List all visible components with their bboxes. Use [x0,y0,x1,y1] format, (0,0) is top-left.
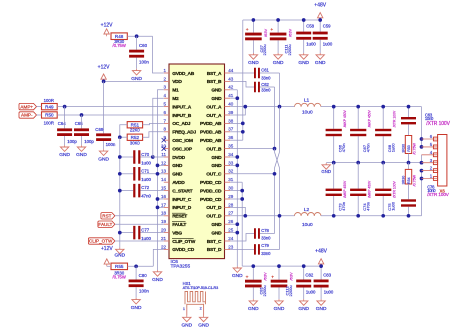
svg-text:1u00: 1u00 [324,290,334,295]
svg-text:/0.75W: /0.75W [412,174,416,186]
svg-text:100p: 100p [84,139,94,144]
svg-text:19: 19 [161,219,167,224]
svg-text:OUT_D: OUT_D [206,205,222,211]
pin 31 PVDD_CD [200,177,234,186]
svg-text:10u0: 10u0 [302,110,313,116]
ground below C80 [131,298,142,311]
svg-text:PVDD_AB: PVDD_AB [200,138,222,144]
capacitor C71 [120,167,158,182]
svg-text:GND: GND [316,306,327,312]
wire output mid rail GND [326,162,421,164]
svg-text:L1: L1 [304,98,310,104]
svg-text:INPUT_D: INPUT_D [172,205,192,211]
ground below C59 [315,53,326,66]
wire rail CD to X6 pins 2/1 [420,169,424,216]
svg-text:GND: GND [152,277,163,283]
junction C64 tap [63,105,67,109]
ground above R55 [0,0,1,1]
svg-text:32: 32 [228,169,234,174]
svg-text:GND: GND [248,306,259,312]
svg-text:100R: 100R [44,98,54,103]
wire CLIP_OTW to pin 21 [115,240,164,242]
junction OUT_D vertical [278,214,282,218]
svg-text:R51: R51 [131,122,140,127]
svg-text:/MKP 450V: /MKP 450V [367,109,371,127]
pin 15 C_START [161,186,193,195]
svg-text:R53: R53 [407,145,411,152]
pin 2 VDD [163,76,182,85]
svg-text:C64: C64 [58,121,66,126]
svg-text:/MKP 450V: /MKP 450V [343,180,347,198]
power flag +12V (bottom) [101,246,113,266]
svg-text:/63V: /63V [288,272,293,281]
op-amp IC6 TPA3255 body [169,64,225,269]
svg-text:C82: C82 [305,273,313,278]
svg-text:VDD: VDD [172,79,182,85]
svg-text:C58: C58 [306,24,314,29]
svg-text:100p: 100p [67,139,77,144]
capacitor C83 [314,264,334,299]
junction C70 left [118,155,122,159]
wire RST to pin 18 RESET [115,215,164,217]
svg-text:BST_D: BST_D [207,247,222,253]
svg-text:36: 36 [228,135,234,140]
pin 39 OUT_A [206,110,234,119]
svg-text:GVDD_AB: GVDD_AB [172,71,195,77]
svg-text:29: 29 [228,194,234,199]
junction R52/GND rail [118,135,122,139]
svg-text:GND: GND [59,152,70,158]
svg-text:INPUT_A: INPUT_A [172,104,192,110]
flag FAULT [98,221,115,227]
pin 40 OUT_A [206,102,234,111]
heatsink HS1 [183,281,219,315]
svg-text:R49: R49 [45,104,54,109]
svg-text:INPUT_C: INPUT_C [172,197,192,203]
svg-text:22K0: 22K0 [130,128,140,133]
wire R52 to GND rail [120,136,127,138]
ground below C112 [274,299,285,312]
pin 16 INPUT_C [161,194,192,203]
resistor R50 [42,112,58,126]
svg-text:GND: GND [131,305,142,311]
input flag AMP+ [19,103,37,109]
svg-text:/MKP 450V: /MKP 450V [367,180,371,198]
wire C70 to pin 11 DVDD [153,156,164,158]
svg-text:C61: C61 [261,67,269,72]
svg-text:470n: 470n [365,202,370,211]
svg-text:+48V: +48V [314,3,326,9]
capacitor C80 [129,266,150,298]
svg-text:GND: GND [211,88,222,94]
svg-text:30: 30 [228,186,234,191]
svg-text:C80: C80 [139,273,148,278]
svg-text:CLIP_OTW: CLIP_OTW [172,239,196,245]
flag RST [101,213,115,219]
svg-text:+: + [246,28,249,33]
capacitor C79 [230,243,279,256]
svg-text:470n: 470n [341,143,346,152]
svg-text:14: 14 [161,177,167,182]
svg-text:BST_B: BST_B [207,79,222,85]
ground below C81 [248,299,259,312]
svg-text:35: 35 [228,144,234,149]
svg-text:13: 13 [161,169,167,174]
resistor R48 [111,33,127,48]
pin 4 M2 [163,93,178,102]
capacitor C72 [120,184,164,199]
pin 41 GND [211,93,233,102]
pin 20 VBG [161,228,182,237]
svg-text:PVDD_AB: PVDD_AB [200,121,222,127]
svg-text:GND: GND [298,306,309,312]
svg-text:1u00: 1u00 [306,290,316,295]
pin 12 GND [161,160,183,169]
wire +12V down to C69 [103,81,105,133]
svg-text:2200u: 2200u [262,285,267,296]
svg-text:10u0: 10u0 [302,222,313,228]
capacitor C111 [270,18,293,55]
capacitor C64 [57,107,77,146]
svg-text:R50: R50 [45,113,54,118]
junction C77 left [118,231,122,235]
junction C72 left [118,189,122,193]
svg-text:GND: GND [181,323,192,329]
wire R52 to pin 8 FREQ_ADJ [143,132,164,137]
power flag +12V (top) [101,22,113,36]
pin 22 GVDD_CD [161,244,195,253]
capacitor C81 [245,264,268,299]
svg-text:38: 38 [228,118,234,123]
ground below C111 [273,53,284,66]
svg-text:GND: GND [114,253,125,259]
svg-text:25: 25 [228,228,234,233]
capacitor C57 [245,18,268,55]
svg-text:/63V: /63V [263,28,268,37]
resistor R49 [42,98,58,110]
svg-text:GND: GND [248,60,259,66]
pin 30 PVDD_CD [200,186,234,195]
capacitor C67 [350,105,371,165]
wire crossover OUT nets [275,107,280,250]
capacitor C65 [74,115,94,145]
power flag +12V (VDD) [98,64,110,81]
wire R49 to pin 5 INPUT_A [57,106,164,108]
svg-text:GND: GND [98,156,109,162]
power flag +48V (bottom) [315,249,327,267]
svg-text:/XTR 100V: /XTR 100V [426,121,450,127]
svg-text:+12V: +12V [101,22,113,28]
svg-text:16: 16 [161,194,167,199]
svg-text:21: 21 [161,236,167,241]
wire OUT_D pins 28/27 join [230,207,294,217]
svg-text:INPUT_B: INPUT_B [172,113,192,119]
PVDD_AB vertical to top rail [230,20,244,140]
capacitor C75 [375,163,396,218]
svg-text:BST_C: BST_C [207,239,222,245]
svg-text:RESET: RESET [172,214,187,220]
svg-text:41: 41 [228,93,234,98]
wire AMP+ to R49 [37,106,42,108]
svg-text:28: 28 [228,202,234,207]
pin 29 PVDD_CD [200,194,234,203]
svg-text:OUT_B: OUT_B [206,146,222,152]
svg-text:OUT_A: OUT_A [206,113,222,119]
ground heatsink pin 1 [181,316,192,329]
svg-text:OUT_C: OUT_C [206,172,222,178]
svg-text:GND: GND [76,152,87,158]
svg-text:GND: GND [131,76,142,82]
svg-text:470n: 470n [365,143,370,152]
pin 24 BST_C [207,236,234,245]
GND vertical right of IC [230,90,239,266]
ground heatsink pin 2 [198,316,209,329]
wire R48 to C60 node [127,35,152,37]
svg-text:+48V: +48V [315,249,327,255]
svg-text:C_START: C_START [172,188,192,194]
pin 42 GND [211,85,233,94]
svg-text:1u00: 1u00 [390,143,395,153]
svg-text:100n: 100n [106,142,116,147]
connector X6 [422,134,447,193]
svg-text:C62: C62 [261,82,269,87]
wire top +48V rail [243,19,320,21]
svg-text:37: 37 [228,127,234,132]
pin 21 CLIP_OTW [161,236,196,245]
svg-text:R55: R55 [115,264,124,269]
svg-text:GND: GND [321,169,331,174]
pin 26 GND [211,219,233,228]
wire output rail AB [334,106,422,108]
wire R51 to pin 7 OC_ADJ [143,123,164,124]
junction pin 16 INPUT_C [156,197,164,201]
pin 37 PVDD_AB [200,127,234,136]
wire C62 to OUT_B [273,87,277,150]
svg-text:1u00: 1u00 [141,177,151,182]
svg-text:34: 34 [228,152,234,157]
ground below IC left [152,270,163,283]
svg-text:33n0: 33n0 [261,87,271,92]
pin 1 GVDD_AB [163,68,194,77]
svg-text:GND: GND [273,60,284,66]
junction node R48/C60 [135,34,139,38]
svg-text:OUT_A: OUT_A [206,104,222,110]
svg-text:R54: R54 [407,177,411,184]
svg-text:1u00: 1u00 [306,42,316,47]
wire mid rail to X6 pins 4/3 [420,155,424,165]
capacitor C70 [120,150,153,165]
wire rail AB to X6 pins 6/5 [420,107,424,149]
resistor R51 [127,122,142,133]
PVDD_CD vertical to bottom rail [230,182,244,266]
svg-text:GND: GND [198,323,209,329]
svg-text:44: 44 [228,68,234,73]
no-connect X pin 10 [162,146,166,150]
inductor L2 [295,207,321,228]
svg-text:TPA3255: TPA3255 [171,263,191,269]
ground below C58 [298,53,309,66]
svg-text:GND: GND [172,163,183,169]
capacitor C66 [326,105,347,165]
svg-text:2200u: 2200u [262,44,267,55]
svg-text:1u00: 1u00 [141,160,151,165]
capacitor C58 [296,18,316,53]
ground below C83 [316,299,327,312]
svg-text:3R30: 3R30 [401,176,405,185]
junction pin 13 GND [156,172,164,176]
svg-text:BST_A: BST_A [207,71,222,77]
svg-text:/XTR 100V: /XTR 100V [427,192,450,197]
svg-text:2200u: 2200u [287,44,292,55]
ground below IC right [232,266,243,279]
svg-text:FAULT: FAULT [98,222,112,227]
ground below C65 [76,145,87,158]
svg-text:/XTR 100V: /XTR 100V [392,110,396,127]
svg-text:VBG: VBG [172,230,182,236]
junction OUT_C vertical [273,172,277,176]
svg-text:R52: R52 [131,135,140,140]
pin 13 GND [161,169,183,178]
pin 38 PVDD_AB [200,118,234,127]
svg-text:PVDD_CD: PVDD_CD [200,188,222,194]
svg-text:GVDD_CD: GVDD_CD [172,247,195,253]
no-connect X pin 9 [162,138,166,142]
svg-text:C83: C83 [323,273,331,278]
wire output rail CD [321,215,422,217]
svg-text:2200u: 2200u [288,285,293,296]
svg-text:100n: 100n [139,59,149,64]
svg-text:33: 33 [228,160,234,165]
wire bottom +48V rail [242,265,321,267]
svg-text:OSC_IOM: OSC_IOM [172,138,193,144]
wire M2 pin 4 to DVDD net [153,98,164,157]
svg-text:/63V: /63V [263,272,268,281]
svg-text:27: 27 [228,211,234,216]
wire node up to pin 22 GVDD_CD [153,249,164,266]
svg-text:+: + [246,275,249,280]
svg-text:GND: GND [298,60,309,66]
svg-text:C78: C78 [261,228,269,233]
svg-text:+: + [270,28,273,33]
svg-text:X6: X6 [440,188,446,193]
ground at left rail bottom [114,248,125,259]
resistor R54 [401,163,416,187]
capacitor C68 [375,105,396,165]
input flag AMP- [19,112,37,118]
svg-text:26: 26 [228,219,234,224]
pin 19 FAULT [161,219,186,228]
svg-text:AMP+: AMP+ [20,104,33,109]
svg-text:DVDD: DVDD [172,155,185,161]
pin 44 BST_A [207,68,234,77]
pin 32 OUT_C [206,169,234,178]
junction +12V/C69 [102,80,106,84]
pin 43 BST_B [207,76,234,85]
GND rail left vertical [119,137,121,247]
svg-text:17: 17 [161,202,167,207]
capacitor C73 [326,163,347,218]
svg-text:FAULT: FAULT [172,222,186,228]
wire L1 to output rail [321,106,334,108]
junction pin 12 GND [156,164,164,168]
svg-text:GND: GND [315,60,326,66]
svg-text:/0.75W: /0.75W [113,43,126,48]
capacitor C69 [95,127,116,149]
svg-text:470n: 470n [341,202,346,211]
wire OUT_A pins 40/39 join [230,105,294,115]
ground below C57 [248,53,259,66]
svg-text:+: + [271,275,274,280]
svg-text:OUT_D: OUT_D [206,214,222,220]
svg-text:/0.75W: /0.75W [113,274,126,279]
svg-text:AMP-: AMP- [21,113,33,118]
capacitor C74 [350,163,371,218]
junction R55/C80 [134,264,138,268]
wire R50 to pin 6 INPUT_B [57,114,164,116]
svg-text:23: 23 [228,244,234,249]
capacitor C77 [120,226,164,241]
pin 25 GND [211,228,233,237]
ground below C69 [98,149,109,162]
svg-text:3R30: 3R30 [401,144,405,153]
svg-text:1u00: 1u00 [323,42,333,47]
wire +12V to R55 [107,265,111,267]
capacitor C61 [230,67,279,80]
capacitor C63 snubber [401,105,451,136]
pin 11 DVDD [161,152,185,161]
pin 27 OUT_D [206,211,234,220]
svg-text:15: 15 [161,186,167,191]
svg-text:/XTR 100V: /XTR 100V [392,180,396,197]
wire R55 to node [128,265,154,267]
pin 34 GND [211,152,233,161]
pin 28 OUT_D [206,202,234,211]
svg-text:1u00: 1u00 [390,201,395,211]
svg-text:22: 22 [161,244,167,249]
pin 17 INPUT_D [161,202,192,211]
svg-text:/0.75W: /0.75W [412,143,416,155]
junction C71 left [118,172,122,176]
svg-text:1u00: 1u00 [141,236,151,241]
svg-text:GND: GND [172,172,183,178]
svg-text:+12V: +12V [98,64,110,70]
pin 14 AVDD [161,177,185,186]
pin 5 INPUT_A [163,102,191,111]
svg-text:C72: C72 [141,185,149,190]
svg-text:GND: GND [211,96,222,102]
svg-text:ATS-TI10P-519-C1-R3: ATS-TI10P-519-C1-R3 [183,286,219,290]
svg-text:39: 39 [228,110,234,115]
ground below C60 [131,69,142,82]
wire C61 to OUT_A [278,73,282,108]
svg-text:CLIP_OTW: CLIP_OTW [89,239,113,244]
svg-text:100n: 100n [139,289,149,294]
junction C70 right M2 net [151,155,155,159]
pin 35 OUT_B [206,144,234,153]
wire +12V to pin 2 VDD [104,80,164,82]
svg-text:33n0: 33n0 [261,251,271,256]
svg-text:OC_ADJ: OC_ADJ [172,121,191,127]
wire node to pin 1 GVDD_AB [153,36,164,73]
svg-text:M2: M2 [172,96,179,102]
wire FAULT to pin 19 [115,223,164,225]
svg-text:RST: RST [102,214,111,219]
capacitor C62 [230,81,274,92]
wire R51 to GND rail [120,125,127,138]
capacitor C59 [313,18,333,53]
wire AMP- to R50 [37,114,42,116]
pin 33 GND [211,160,233,169]
